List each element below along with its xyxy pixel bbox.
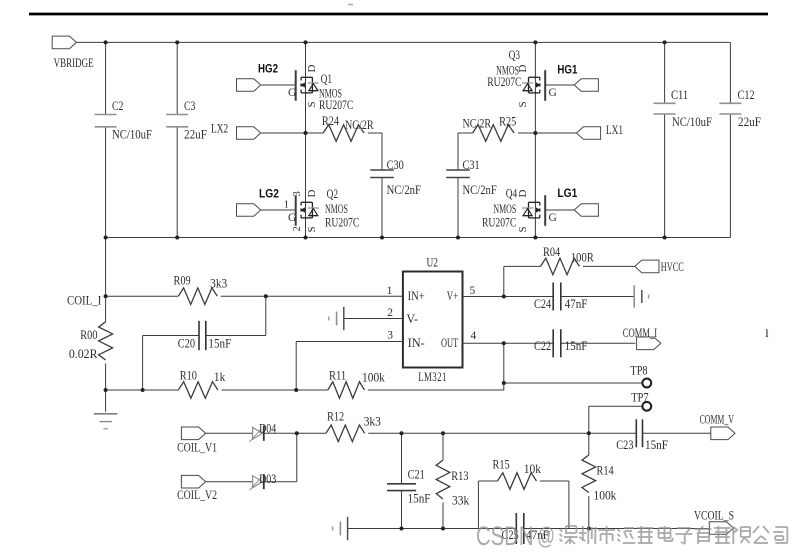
- svg-text:R10: R10: [180, 369, 197, 383]
- svg-text:U2: U2: [427, 255, 438, 269]
- svg-text:IN+: IN+: [408, 289, 425, 303]
- svg-text:HVCC: HVCC: [661, 260, 684, 274]
- svg-text:V-: V-: [407, 312, 418, 326]
- svg-text:D: D: [306, 190, 318, 198]
- svg-text:C22: C22: [534, 339, 551, 353]
- svg-text:R24: R24: [322, 114, 340, 128]
- svg-text:3: 3: [387, 330, 393, 342]
- svg-text:NC/10uF: NC/10uF: [672, 115, 712, 129]
- svg-text:G: G: [549, 87, 557, 99]
- svg-text:5: 5: [470, 285, 476, 297]
- svg-text:NC/2nF: NC/2nF: [387, 183, 421, 197]
- svg-text:15nF: 15nF: [408, 492, 431, 506]
- svg-text:HG1: HG1: [557, 63, 577, 77]
- svg-text:R13: R13: [451, 469, 468, 483]
- svg-text:COMM_V: COMM_V: [700, 413, 734, 427]
- svg-text:C23: C23: [616, 438, 633, 452]
- svg-text:22uF: 22uF: [738, 115, 761, 129]
- svg-text:TP8: TP8: [630, 364, 647, 378]
- svg-text:C30: C30: [387, 158, 404, 172]
- svg-text:R14: R14: [597, 463, 615, 477]
- svg-text:1k: 1k: [214, 370, 226, 384]
- svg-text:C24: C24: [534, 297, 552, 311]
- svg-text:LX1: LX1: [606, 123, 623, 137]
- svg-text:NMOS: NMOS: [325, 202, 348, 216]
- svg-text:I: I: [765, 328, 769, 340]
- svg-text:R00: R00: [80, 328, 97, 342]
- svg-text:Q2: Q2: [327, 187, 338, 201]
- svg-text:3k3: 3k3: [364, 415, 381, 429]
- svg-text:S: S: [517, 101, 529, 107]
- svg-text:VBRIDGE: VBRIDGE: [54, 56, 94, 70]
- svg-text:COIL_V1: COIL_V1: [177, 441, 217, 455]
- svg-text:COIL_I: COIL_I: [67, 294, 101, 308]
- svg-text:LX2: LX2: [211, 122, 228, 136]
- svg-text:G: G: [549, 212, 557, 224]
- svg-text:TP7: TP7: [631, 391, 648, 405]
- svg-text:RU207C: RU207C: [325, 215, 359, 229]
- svg-text:RU207C: RU207C: [319, 98, 353, 112]
- svg-text:15nF: 15nF: [645, 438, 668, 452]
- svg-text:LG1: LG1: [557, 186, 577, 200]
- svg-text:NC/2R: NC/2R: [345, 118, 374, 132]
- svg-text:100R: 100R: [571, 251, 594, 265]
- svg-text:R09: R09: [174, 274, 191, 288]
- svg-text:OUT: OUT: [441, 336, 458, 350]
- svg-text:NC/2nF: NC/2nF: [463, 183, 497, 197]
- svg-text:15nF: 15nF: [208, 337, 231, 351]
- svg-text:V+: V+: [447, 289, 458, 303]
- svg-text:R25: R25: [499, 114, 516, 128]
- svg-text:HG2: HG2: [258, 62, 278, 76]
- svg-text:R12: R12: [327, 410, 344, 424]
- svg-text:100k: 100k: [594, 488, 618, 502]
- svg-text:@: @: [537, 523, 555, 550]
- svg-text:NC/2R: NC/2R: [463, 117, 492, 131]
- svg-text:2: 2: [292, 226, 303, 231]
- svg-text:D03: D03: [259, 472, 276, 486]
- svg-text:C31: C31: [463, 158, 480, 172]
- svg-text:C12: C12: [738, 88, 755, 102]
- svg-text:D04: D04: [259, 422, 277, 436]
- svg-text:10k: 10k: [524, 462, 542, 476]
- svg-text:S: S: [306, 226, 318, 232]
- svg-text:IN-: IN-: [408, 336, 425, 350]
- svg-text:G: G: [288, 87, 296, 99]
- svg-text:0.02R: 0.02R: [69, 347, 98, 361]
- svg-text:Q1: Q1: [321, 72, 332, 86]
- svg-text:D: D: [517, 190, 529, 198]
- svg-text:NMOS: NMOS: [493, 202, 516, 216]
- svg-text:2: 2: [387, 307, 393, 319]
- svg-text:RU207C: RU207C: [487, 75, 521, 89]
- svg-text:NC/10uF: NC/10uF: [112, 128, 152, 142]
- svg-text:RU207C: RU207C: [482, 215, 516, 229]
- svg-text:4: 4: [471, 330, 477, 342]
- svg-text:C2: C2: [112, 99, 123, 113]
- svg-text:1: 1: [387, 285, 393, 297]
- svg-text:LG2: LG2: [259, 187, 279, 201]
- svg-text:G: G: [288, 212, 296, 224]
- svg-text:CSDN: CSDN: [476, 521, 534, 551]
- svg-text:LM321: LM321: [418, 370, 447, 384]
- svg-text:22uF: 22uF: [184, 128, 207, 142]
- svg-text:15nF: 15nF: [565, 339, 588, 353]
- svg-text:R15: R15: [493, 458, 510, 472]
- svg-text:R11: R11: [329, 369, 346, 383]
- svg-text:Q3: Q3: [509, 48, 520, 62]
- svg-text:S: S: [517, 226, 529, 232]
- svg-text:VCOIL_S: VCOIL_S: [694, 509, 734, 523]
- svg-text:3: 3: [292, 191, 303, 196]
- svg-text:D: D: [306, 65, 318, 73]
- svg-text:C20: C20: [178, 337, 195, 351]
- svg-text:1: 1: [284, 200, 289, 211]
- svg-text:33k: 33k: [452, 494, 470, 508]
- svg-text:COIL_V2: COIL_V2: [177, 488, 217, 502]
- svg-text:S: S: [306, 101, 318, 107]
- svg-text:47nF: 47nF: [565, 297, 588, 311]
- svg-text:3k3: 3k3: [210, 277, 227, 291]
- svg-text:100k: 100k: [362, 371, 386, 385]
- svg-text:COMM_I: COMM_I: [623, 326, 657, 340]
- svg-text:Q4: Q4: [506, 187, 518, 201]
- svg-text:C21: C21: [408, 468, 425, 482]
- svg-text:R04: R04: [543, 245, 561, 259]
- svg-text:C3: C3: [184, 99, 195, 113]
- svg-text:C11: C11: [671, 88, 688, 102]
